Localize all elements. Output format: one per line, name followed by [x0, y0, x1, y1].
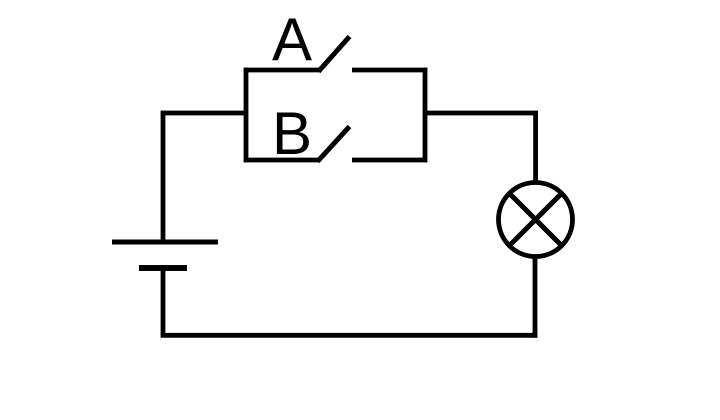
- switch B right contact wire: [352, 158, 427, 163]
- battery BT1 long plate (+): [112, 240, 218, 245]
- wire: switch box left vertical: [244, 68, 249, 162]
- switch A left contact wire: [244, 68, 320, 73]
- wire: bottom rail: [161, 333, 538, 338]
- wire: left vertical lower (battery - to bottom rail): [161, 268, 166, 337]
- lamp L1 circle: [499, 183, 573, 257]
- battery BT1 short plate (-): [139, 265, 187, 271]
- wire: left vertical upper (node to battery +): [161, 111, 166, 242]
- switch B blade: [318, 127, 350, 162]
- wire: lamp branch upper vertical: [533, 111, 538, 183]
- switch B left contact wire: [244, 158, 319, 163]
- lamp L1 cross stroke 1: [509, 193, 561, 245]
- switch A right contact wire: [352, 68, 427, 73]
- lamp L1 cross stroke 2: [509, 193, 561, 245]
- wire: mid feed from switch box to lamp branch: [425, 111, 537, 116]
- svg-text:A: A: [272, 6, 312, 73]
- svg-text:B: B: [272, 100, 312, 167]
- wire: lamp branch lower vertical: [533, 256, 538, 338]
- wire: switch box right vertical: [423, 68, 428, 162]
- wire: top feed from left vertical to switch box: [161, 111, 246, 116]
- switch A blade: [319, 37, 350, 72]
